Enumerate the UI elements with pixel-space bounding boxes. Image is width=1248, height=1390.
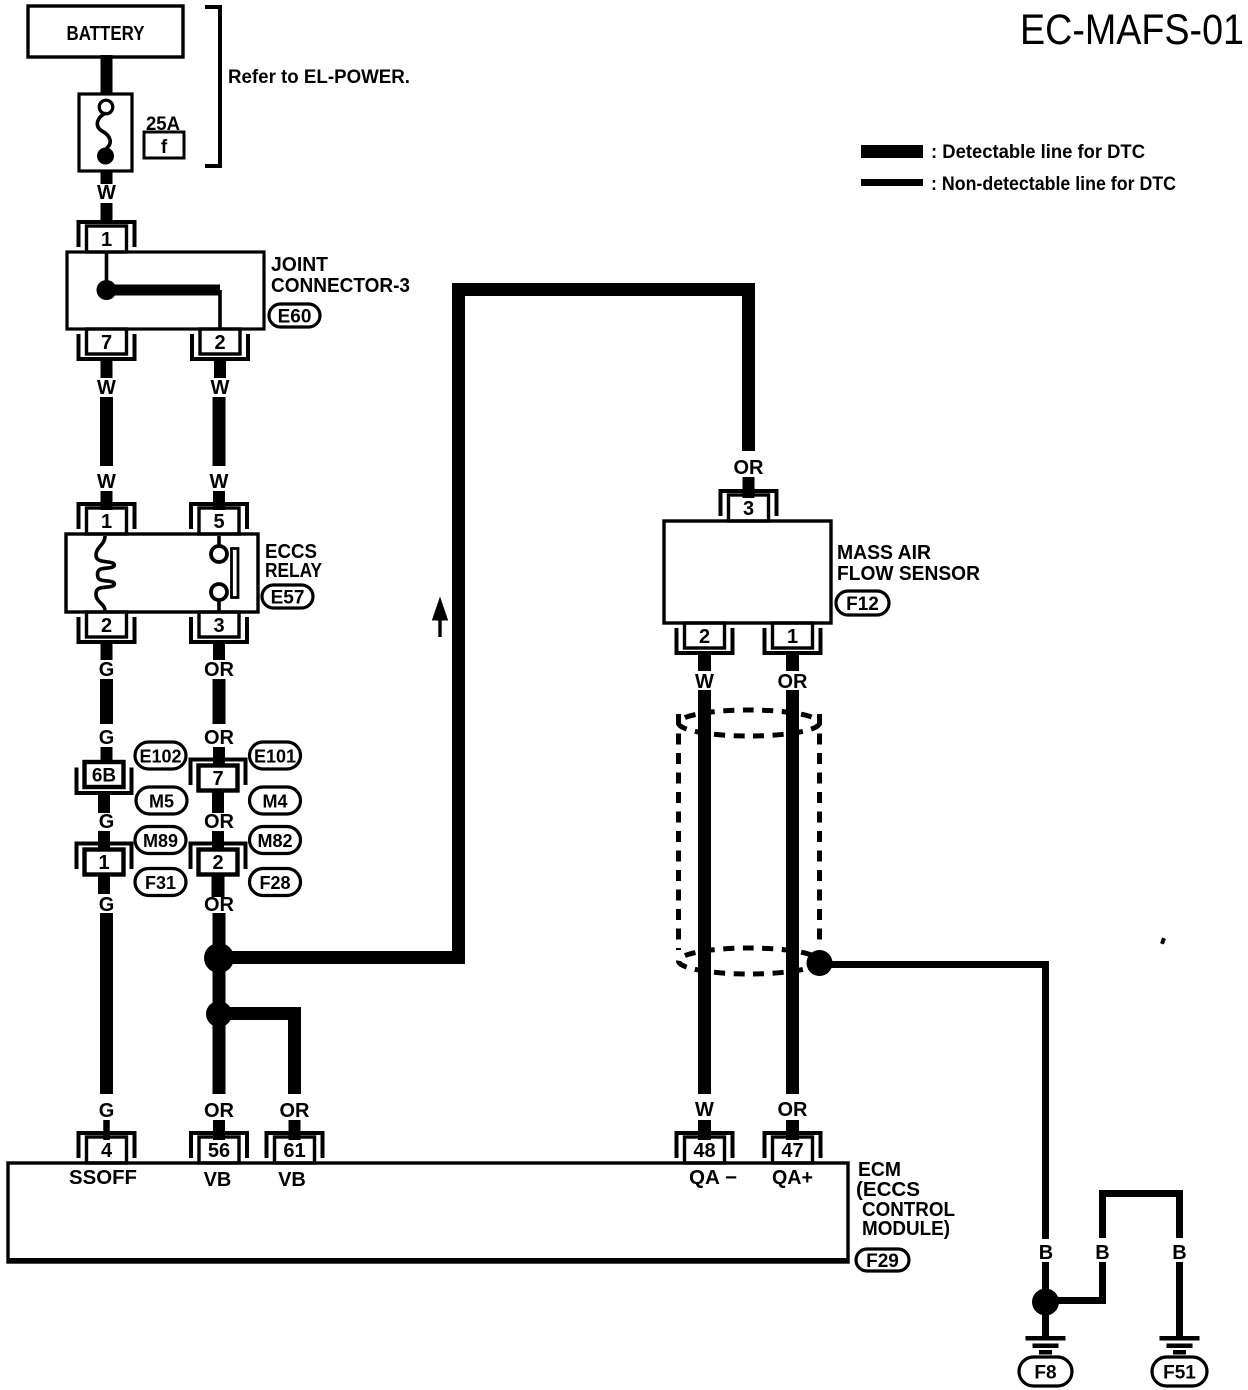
svg-text:QA −: QA −	[689, 1167, 737, 1189]
svg-text:: Non-detectable line for DTC: : Non-detectable line for DTC	[931, 173, 1176, 195]
svg-text:5: 5	[213, 511, 224, 533]
svg-text:G: G	[99, 811, 115, 833]
svg-text:W: W	[695, 1099, 714, 1121]
svg-text:OR: OR	[778, 1099, 809, 1121]
svg-text:M82: M82	[257, 831, 292, 851]
svg-text:F29: F29	[866, 1251, 899, 1272]
svg-text:(ECCS: (ECCS	[856, 1179, 920, 1201]
svg-text:B: B	[1095, 1242, 1109, 1264]
svg-text:F51: F51	[1163, 1363, 1196, 1384]
svg-text:56: 56	[208, 1140, 230, 1162]
svg-text:1: 1	[787, 626, 798, 648]
svg-text:7: 7	[101, 332, 112, 354]
svg-text:OR: OR	[204, 659, 235, 681]
svg-text:B: B	[1039, 1242, 1053, 1264]
svg-text:M89: M89	[143, 831, 178, 851]
svg-text:G: G	[99, 1100, 115, 1122]
svg-text:2: 2	[699, 626, 710, 648]
svg-text:1: 1	[101, 229, 112, 251]
svg-text:W: W	[211, 377, 230, 399]
svg-text:1: 1	[101, 511, 112, 533]
svg-text:MODULE): MODULE)	[862, 1218, 950, 1240]
svg-text:E60: E60	[278, 307, 312, 328]
svg-text:FLOW SENSOR: FLOW SENSOR	[837, 563, 981, 585]
svg-text:G: G	[99, 894, 115, 916]
svg-text:JOINT: JOINT	[271, 254, 328, 276]
svg-text:6B: 6B	[92, 766, 116, 787]
svg-text:3: 3	[743, 498, 754, 520]
svg-text:f: f	[161, 137, 168, 158]
svg-text:BATTERY: BATTERY	[67, 23, 146, 45]
svg-text:E57: E57	[271, 588, 305, 609]
svg-text:CONNECTOR-3: CONNECTOR-3	[271, 275, 410, 297]
svg-text:1: 1	[98, 852, 109, 874]
svg-text:G: G	[99, 659, 115, 681]
svg-text:7: 7	[212, 768, 223, 790]
svg-text:W: W	[210, 471, 229, 493]
svg-text:F8: F8	[1034, 1363, 1056, 1384]
svg-text:MASS AIR: MASS AIR	[837, 542, 932, 564]
svg-text:ECM: ECM	[858, 1159, 901, 1181]
svg-text:B: B	[1172, 1242, 1186, 1264]
svg-text:OR: OR	[204, 894, 235, 916]
svg-text:VB: VB	[278, 1169, 306, 1191]
svg-text:3: 3	[213, 615, 224, 637]
svg-text:M4: M4	[262, 792, 287, 812]
svg-text:2: 2	[214, 332, 225, 354]
svg-text:2: 2	[101, 615, 112, 637]
svg-text:F28: F28	[259, 873, 290, 893]
svg-text:OR: OR	[734, 457, 765, 479]
svg-text:OR: OR	[204, 727, 235, 749]
svg-text:E102: E102	[139, 747, 181, 767]
svg-text:F31: F31	[145, 873, 176, 893]
svg-text:G: G	[99, 727, 115, 749]
svg-text:W: W	[97, 377, 116, 399]
svg-text:47: 47	[781, 1140, 803, 1162]
svg-text:SSOFF: SSOFF	[69, 1167, 137, 1189]
svg-text:4: 4	[101, 1140, 113, 1162]
svg-text:RELAY: RELAY	[265, 560, 323, 582]
svg-text:OR: OR	[204, 1100, 235, 1122]
svg-text:2: 2	[212, 852, 223, 874]
svg-text:OR: OR	[280, 1100, 311, 1122]
svg-text:QA+: QA+	[772, 1167, 813, 1189]
svg-text:Refer to EL-POWER.: Refer to EL-POWER.	[228, 67, 410, 88]
svg-text:E101: E101	[254, 747, 296, 767]
svg-text:W: W	[97, 182, 116, 204]
svg-text:VB: VB	[204, 1169, 232, 1191]
svg-text:M5: M5	[149, 792, 174, 812]
svg-text:F12: F12	[846, 594, 879, 615]
svg-text:61: 61	[283, 1140, 305, 1162]
svg-text:: Detectable line for DTC: : Detectable line for DTC	[931, 141, 1145, 163]
svg-text:OR: OR	[204, 811, 235, 833]
svg-text:EC-MAFS-01: EC-MAFS-01	[1020, 6, 1244, 54]
svg-text:48: 48	[693, 1140, 715, 1162]
svg-text:OR: OR	[778, 671, 809, 693]
svg-text:W: W	[97, 471, 116, 493]
svg-text:W: W	[695, 671, 714, 693]
